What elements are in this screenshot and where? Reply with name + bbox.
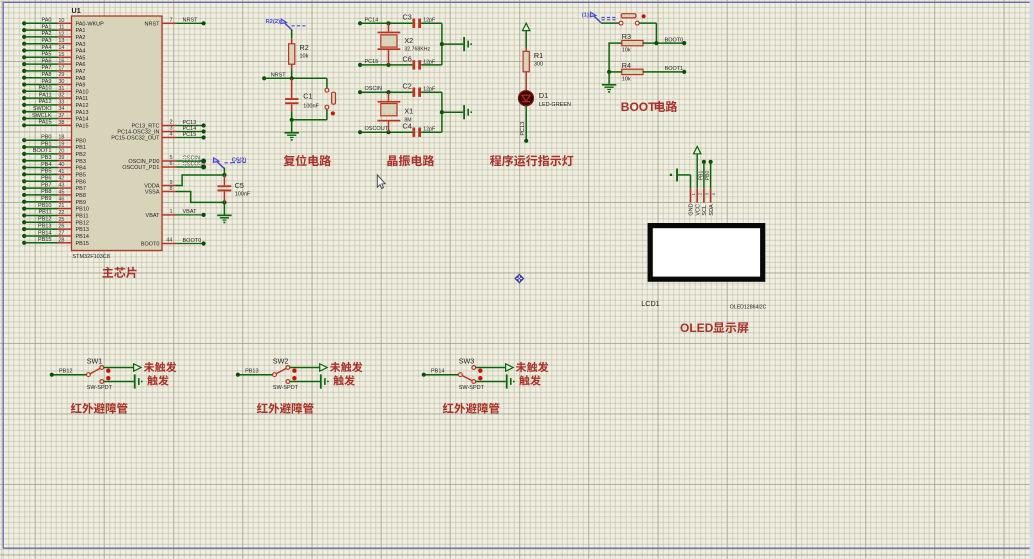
resistor R4: [622, 69, 643, 74]
ground below C5: [223, 214, 225, 216]
wire boot button left: [601, 22, 619, 24]
ground right SW1: [134, 374, 136, 388]
label 未触发 SW2: [330, 362, 341, 372]
svg-text:R2(2): R2(2): [266, 19, 281, 25]
wire PC14 row: [360, 22, 412, 24]
wire SW2 top: [290, 367, 320, 369]
svg-text:100nF: 100nF: [303, 104, 319, 110]
svg-text:PB5: PB5: [41, 169, 51, 175]
svg-text:10: 10: [58, 18, 64, 24]
svg-text:7: 7: [169, 18, 172, 24]
svg-text:NRST: NRST: [145, 21, 161, 27]
svg-text:PA3: PA3: [76, 42, 86, 48]
svg-text:PB1: PB1: [698, 171, 704, 181]
wire SW3 bottom: [476, 381, 506, 383]
label 红外避障管 SW2: [257, 403, 268, 413]
label 程序运行指示灯: [490, 155, 501, 166]
svg-text:13: 13: [58, 38, 64, 44]
svg-text:17: 17: [58, 65, 64, 71]
svg-text:40: 40: [58, 162, 64, 168]
pin 7 NRST wire+label: [162, 22, 177, 24]
wire SW1 top: [104, 367, 134, 369]
svg-text:D1: D1: [539, 91, 548, 100]
svg-text:30: 30: [58, 79, 64, 85]
svg-text:2: 2: [698, 192, 703, 195]
terminal BOOT0: [682, 41, 686, 45]
svg-text:6: 6: [169, 161, 172, 167]
resistor R1: [523, 51, 529, 71]
svg-text:PC14: PC14: [365, 17, 379, 23]
label 复位电路: [283, 155, 294, 166]
svg-text:C1: C1: [303, 91, 312, 100]
svg-text:37: 37: [58, 113, 64, 119]
pin 2 PC13 wire+label: [162, 125, 177, 127]
label 触发 SW2: [333, 375, 344, 385]
power arrow SW3: [506, 364, 514, 371]
svg-text:PB8: PB8: [41, 189, 51, 195]
LCD1 panel: [650, 226, 763, 280]
svg-text:PB13: PB13: [245, 369, 258, 375]
svg-text:R1: R1: [534, 51, 543, 60]
svg-text:C2: C2: [403, 82, 412, 91]
svg-text:43: 43: [58, 183, 64, 189]
svg-text:12: 12: [58, 31, 64, 37]
capacitor C1: [291, 78, 293, 98]
resistor R2: [289, 44, 295, 64]
switch SW2 actuator: [292, 369, 296, 373]
terminal PC15: [358, 63, 362, 67]
svg-text:PB0: PB0: [41, 135, 51, 141]
svg-text:PB15: PB15: [76, 241, 89, 247]
wire R4 left stub: [609, 71, 622, 73]
svg-text:46: 46: [58, 196, 64, 202]
LCD1 pin 2: [696, 188, 698, 202]
wire to ground X1: [442, 111, 463, 113]
pin 26 PB13 wire+label: [22, 227, 26, 231]
svg-text:LED-GREEN: LED-GREEN: [539, 102, 571, 108]
wire bus right X1: [441, 92, 443, 132]
terminal SDA top: [709, 160, 713, 164]
pin 43 PB7 wire+label: [22, 186, 26, 190]
wire C6 right: [421, 64, 442, 66]
pin 41 PB5 wire+label: [22, 172, 26, 176]
wire R3 right / BOOT0: [643, 42, 684, 44]
svg-text:39: 39: [58, 155, 64, 161]
pin 10 PA0 wire+label: [22, 21, 26, 25]
ground reset: [291, 120, 293, 132]
pin 1 VBAT wire+label: [162, 214, 177, 216]
svg-text:21: 21: [58, 203, 64, 209]
annotation cursor C5(2): [213, 158, 219, 163]
ground boot: [608, 72, 610, 84]
svg-text:OSCOUT: OSCOUT: [365, 126, 389, 132]
svg-text:32.768KHz: 32.768KHz: [404, 47, 430, 53]
wire C5 bottom: [223, 191, 225, 202]
svg-text:OSCIN: OSCIN: [365, 86, 382, 92]
wire D1 bottom: [525, 106, 527, 139]
wire R1-D1: [525, 72, 527, 91]
svg-text:U1: U1: [72, 6, 81, 15]
wire OSCOUT row: [360, 131, 412, 133]
label 晶振电路: [387, 155, 397, 166]
svg-text:PB7: PB7: [76, 186, 86, 192]
svg-text:PA9: PA9: [42, 79, 52, 85]
wire C2 right: [421, 91, 442, 93]
pin 22 PB11 wire+label: [22, 213, 26, 217]
svg-text:PB0: PB0: [76, 138, 86, 144]
svg-text:OSCOUT_PD1: OSCOUT_PD1: [122, 165, 159, 171]
svg-text:31: 31: [58, 86, 64, 92]
svg-text:PA0: PA0: [42, 18, 52, 24]
svg-text:10k: 10k: [622, 76, 631, 82]
svg-text:PA12: PA12: [38, 99, 51, 105]
svg-text:SWCLK: SWCLK: [32, 113, 52, 119]
junction PC14: [386, 21, 390, 25]
svg-text:PB11: PB11: [76, 214, 89, 220]
svg-text:PA4: PA4: [42, 45, 52, 51]
svg-text:300: 300: [534, 61, 543, 67]
svg-text:PB13: PB13: [76, 227, 89, 233]
MCU U1 body: [72, 16, 163, 251]
pin 30 PA9 wire+label: [22, 82, 26, 86]
svg-text:PA11: PA11: [39, 92, 52, 98]
pushbutton reset: [326, 78, 328, 88]
svg-text:PC15: PC15: [365, 59, 379, 65]
wire C4 right: [421, 131, 442, 133]
window edge strip: [1030, 0, 1034, 559]
pin 37 SWCLK wire+label: [22, 116, 26, 120]
svg-text:OSCOUT: OSCOUT: [183, 161, 207, 167]
wire C3 right: [421, 22, 442, 24]
switch SW3 lever: [462, 375, 472, 380]
wire PB14: [426, 374, 459, 376]
svg-text:PA14: PA14: [76, 117, 89, 123]
pin 39 PB3 wire+label: [22, 159, 26, 163]
ground X2: [463, 37, 465, 51]
pin 31 PA10 wire+label: [22, 89, 26, 93]
junction NRST/C1: [290, 76, 294, 80]
svg-text:15: 15: [58, 52, 64, 58]
svg-text:PC13: PC13: [520, 122, 526, 136]
pin 33 PA12 wire+label: [22, 103, 26, 107]
LCD1 pin 3: [703, 188, 705, 202]
capacitor C4: [412, 128, 415, 137]
svg-text:PB3: PB3: [76, 159, 86, 165]
power arrow SW2: [320, 364, 328, 371]
wire SW3 top: [476, 367, 506, 369]
svg-text:1: 1: [169, 209, 172, 215]
pin 29 PA8 wire+label: [22, 76, 26, 80]
svg-text:19: 19: [58, 142, 64, 148]
svg-text:PB5: PB5: [76, 173, 86, 179]
svg-text:PA1: PA1: [76, 28, 86, 34]
switch SW3 contacts: [472, 366, 476, 370]
pin 17 PA7 wire+label: [22, 69, 26, 73]
svg-text:C5: C5: [235, 181, 244, 190]
pin 40 PB4 wire+label: [22, 165, 26, 169]
terminal PB13: [236, 373, 240, 377]
junction PC15: [386, 63, 390, 67]
svg-text:BOOT0: BOOT0: [141, 242, 160, 248]
ground OLED left: [676, 169, 678, 182]
pin 8 VSSA wire: [162, 191, 177, 193]
wire SW1 bottom: [104, 381, 134, 383]
pin 25 PB12 wire+label: [22, 220, 26, 224]
svg-text:PB8: PB8: [76, 193, 86, 199]
pin 20 BOOT1 wire+label: [22, 152, 26, 156]
power arrow OLED: [694, 146, 701, 153]
switch SW1 actuator: [106, 369, 110, 373]
svg-text:PB6: PB6: [41, 176, 51, 182]
svg-text:PB11: PB11: [38, 210, 51, 216]
svg-text:PB4: PB4: [76, 166, 86, 172]
svg-text:PA2: PA2: [42, 31, 52, 37]
svg-text:SW-SPDT: SW-SPDT: [459, 385, 485, 391]
svg-text:4: 4: [711, 192, 716, 195]
junction OSCOUT: [386, 130, 390, 134]
pin 15 PA5 wire+label: [22, 55, 26, 59]
svg-text:3: 3: [704, 192, 709, 195]
svg-text:SW3: SW3: [459, 356, 475, 365]
switch SW3 pole: [459, 373, 463, 377]
svg-text:OLED: OLED: [680, 321, 714, 335]
wire NRST row: [264, 77, 327, 79]
wire PB12: [54, 374, 87, 376]
terminal PC14: [358, 21, 362, 25]
svg-text:PB0: PB0: [705, 171, 711, 181]
svg-text:BOOT: BOOT: [621, 100, 656, 114]
wire boot button right: [639, 22, 656, 24]
svg-text:PB6: PB6: [76, 179, 86, 185]
svg-text:BOOT0: BOOT0: [665, 37, 684, 43]
wire C5 top stub: [223, 168, 225, 176]
switch SW2 pole: [273, 373, 277, 377]
LCD1 pin 4: [710, 188, 712, 202]
wire R4 right / BOOT1: [643, 71, 684, 73]
pin 19 PB1 wire+label: [22, 145, 26, 149]
svg-text:4: 4: [169, 132, 172, 138]
svg-text:SW1: SW1: [87, 356, 103, 365]
svg-text:29: 29: [58, 72, 64, 78]
wire to ground X2: [442, 43, 463, 45]
label 触发 SW3: [519, 375, 530, 385]
svg-text:45: 45: [58, 189, 64, 195]
svg-text:34: 34: [58, 106, 64, 112]
pin 42 PB6 wire+label: [22, 179, 26, 183]
svg-text:PB14: PB14: [76, 234, 89, 240]
svg-text:BOOT1: BOOT1: [665, 66, 684, 72]
svg-text:10k: 10k: [622, 48, 631, 54]
svg-text:X2: X2: [404, 36, 413, 45]
junction ground X1: [440, 110, 444, 114]
pin 21 PB10 wire+label: [22, 207, 26, 211]
pushbutton boot: [619, 21, 623, 25]
svg-text:SW-SPDT: SW-SPDT: [273, 385, 299, 391]
svg-text:SWDIO: SWDIO: [33, 106, 52, 112]
svg-text:38: 38: [58, 120, 64, 126]
switch SW2 contacts: [286, 366, 290, 370]
svg-text:(1): (1): [582, 12, 589, 18]
svg-text:26: 26: [58, 224, 64, 230]
pin 34 SWDIO wire+label: [22, 110, 26, 114]
svg-text:10k: 10k: [300, 53, 309, 59]
svg-text:PA3: PA3: [42, 38, 52, 44]
svg-text:NRST: NRST: [183, 18, 199, 24]
svg-text:PB1: PB1: [41, 141, 51, 147]
svg-text:100nF: 100nF: [235, 192, 251, 198]
svg-text:PC15-OSC32_OUT: PC15-OSC32_OUT: [111, 136, 160, 142]
wire SW2 bottom: [290, 381, 320, 383]
ground right SW2: [320, 374, 322, 388]
terminal OSCOUT: [358, 130, 362, 134]
wire SDA pin: [710, 162, 712, 188]
svg-text:PA15: PA15: [38, 120, 51, 126]
pin 6 OSCOUT wire+label: [162, 166, 177, 168]
mouse cursor: [377, 175, 385, 189]
pin 9 VDDA wire: [162, 185, 177, 187]
svg-text:VBAT: VBAT: [183, 209, 198, 215]
crystal X1: [388, 92, 390, 101]
terminal BOOT1: [682, 70, 686, 74]
capacitor C2: [412, 88, 415, 97]
svg-text:8: 8: [169, 186, 172, 192]
svg-text:BOOT1: BOOT1: [33, 148, 52, 154]
pin 44 BOOT0 wire+label: [162, 243, 177, 245]
svg-text:44: 44: [166, 238, 172, 244]
svg-text:PB10: PB10: [76, 207, 89, 213]
pin 18 PB0 wire+label: [22, 138, 26, 142]
led D1: [518, 91, 533, 106]
svg-text:PA10: PA10: [76, 89, 89, 95]
svg-text:20: 20: [58, 148, 64, 154]
switch SW1 contacts: [100, 366, 104, 370]
svg-text:18: 18: [58, 135, 64, 141]
svg-text:8M: 8M: [404, 118, 411, 124]
svg-text:LCD1: LCD1: [641, 299, 659, 308]
resistor R3: [622, 40, 643, 45]
svg-text:PB2: PB2: [76, 152, 86, 158]
junction C5 top: [222, 173, 226, 177]
ground right SW3: [506, 374, 508, 388]
svg-text:R4: R4: [622, 61, 631, 70]
wire PB13: [240, 374, 273, 376]
wire R3 left: [609, 43, 622, 72]
wire PC15 row: [360, 64, 412, 66]
pin 12 PA2 wire+label: [22, 35, 26, 39]
pin 13 PA3 wire+label: [22, 42, 26, 46]
svg-text:VCC: VCC: [695, 204, 701, 216]
svg-text:VBAT: VBAT: [146, 213, 161, 219]
svg-text:25: 25: [58, 217, 64, 223]
svg-text:PA6: PA6: [76, 62, 86, 68]
svg-text:PB15: PB15: [38, 237, 51, 243]
switch SW1 lever: [90, 368, 100, 374]
svg-text:PA8: PA8: [76, 76, 86, 82]
svg-text:28: 28: [58, 237, 64, 243]
svg-text:PA1: PA1: [42, 24, 52, 30]
capacitor C6: [412, 60, 415, 69]
pin 5 OSCIN wire+label: [162, 160, 177, 162]
svg-text:SCL: SCL: [702, 205, 708, 216]
svg-text:42: 42: [58, 176, 64, 182]
svg-text:C6: C6: [403, 54, 412, 63]
pin 38 PA15 wire+label: [22, 123, 26, 127]
pin 3 PC14 wire+label: [162, 131, 177, 133]
svg-text:PA12: PA12: [76, 103, 89, 109]
svg-text:PA5: PA5: [76, 55, 86, 61]
pin 28 PB15 wire+label: [22, 241, 26, 245]
terminal NRST: [262, 76, 266, 80]
junction ground X2: [440, 42, 444, 46]
terminal PB12: [50, 373, 54, 377]
power arrow LED: [523, 23, 530, 30]
svg-text:X1: X1: [404, 106, 413, 115]
origin marker: [515, 274, 524, 283]
svg-text:11: 11: [59, 25, 65, 31]
pin 27 PB14 wire+label: [22, 234, 26, 238]
svg-text:22: 22: [58, 210, 64, 216]
ground X1: [463, 105, 465, 119]
wire C1 bottom row: [292, 119, 327, 121]
terminal PB14: [422, 373, 426, 377]
svg-text:16: 16: [58, 59, 64, 65]
svg-text:SDA: SDA: [709, 204, 715, 216]
label 未触发 SW1: [144, 362, 155, 372]
svg-text:27: 27: [58, 230, 64, 236]
capacitor C5: [218, 185, 232, 187]
switch SW2 lever: [276, 368, 286, 374]
svg-text:VSSA: VSSA: [145, 190, 160, 196]
wire GND pin: [690, 175, 692, 189]
pin 46 PB9 wire+label: [22, 200, 26, 204]
pin 45 PB8 wire+label: [22, 193, 26, 197]
pin 4 PC15 wire+label: [162, 137, 177, 139]
svg-text:STM32F103C8: STM32F103C8: [73, 254, 110, 260]
svg-text:32: 32: [58, 93, 64, 99]
svg-text:BOOT0: BOOT0: [183, 238, 202, 244]
svg-text:33: 33: [58, 99, 64, 105]
junction OSCIN: [386, 90, 390, 94]
wire R2 bottom: [291, 64, 293, 70]
label 未触发 SW3: [516, 362, 527, 372]
svg-text:PB4: PB4: [41, 162, 51, 168]
wire bus right X2: [441, 23, 443, 65]
svg-text:SW2: SW2: [273, 356, 289, 365]
pin 32 PA11 wire+label: [22, 96, 26, 100]
terminal PC13: [524, 139, 528, 143]
svg-text:PA8: PA8: [42, 72, 52, 78]
junction C1 bottom: [290, 118, 294, 122]
svg-text:PA0-WKUP: PA0-WKUP: [76, 21, 105, 27]
svg-text:PA6: PA6: [42, 58, 52, 64]
svg-text:PB10: PB10: [38, 203, 51, 209]
terminal OSCIN: [358, 90, 362, 94]
svg-text:PB12: PB12: [38, 217, 51, 223]
capacitor C3: [412, 19, 415, 28]
switch SW3 actuator: [478, 369, 482, 373]
svg-text:PA11: PA11: [76, 96, 89, 102]
svg-text:GND: GND: [689, 203, 695, 215]
switch SW1 pole: [87, 373, 91, 377]
svg-text:R3: R3: [622, 32, 631, 41]
label 红外避障管 SW1: [71, 403, 82, 413]
pin 11 PA1 wire+label: [22, 28, 26, 32]
svg-text:PA10: PA10: [38, 86, 51, 92]
svg-text:PA9: PA9: [76, 83, 86, 89]
svg-text:PB14: PB14: [431, 369, 444, 375]
LCD1 pin 1: [690, 188, 692, 202]
wire R2 top: [291, 29, 293, 38]
